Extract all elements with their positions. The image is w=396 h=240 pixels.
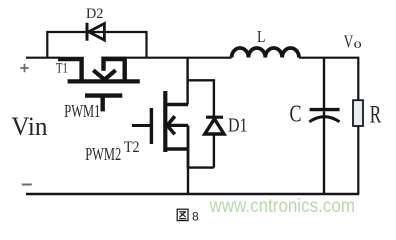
transistor T1 body lead and drain lead (top bar)	[104, 59, 125, 81]
wire R bottom	[357, 126, 359, 194]
transistor T1 source lead (left L)	[58, 59, 82, 81]
svg-text:8: 8	[192, 209, 199, 223]
wire inductor to output corner, down to R	[299, 58, 358, 101]
transistor T2 gate bar	[150, 108, 153, 144]
wire T2 source to ground rail	[187, 168, 189, 194]
svg-text:T2: T2	[124, 139, 140, 156]
transistor T2 drain stub	[164, 103, 189, 107]
svg-text:Vin: Vin	[11, 111, 47, 141]
diode D2 cathode bar	[86, 23, 89, 41]
svg-text:T1: T1	[56, 60, 68, 76]
wire switch node drop to T2 drain	[186, 58, 188, 105]
resistor R box	[353, 100, 363, 126]
transistor T1 body arrow	[93, 70, 115, 79]
wire main rail T1 to inductor	[102, 57, 232, 59]
transistor T1 gate lead	[100, 96, 104, 112]
svg-text:o: o	[354, 37, 362, 52]
svg-text:PWM1: PWM1	[64, 101, 100, 121]
svg-text:C: C	[290, 102, 302, 128]
capacitor C bottom curved plate	[309, 117, 339, 122]
wire branch to D1 top	[188, 80, 214, 116]
svg-text:PWM2: PWM2	[85, 144, 121, 164]
svg-text:www.cntronics.com: www.cntronics.com	[209, 196, 355, 217]
wire D1 bottom	[213, 134, 215, 168]
transistor T2 body stub	[167, 124, 188, 127]
wire C bottom	[323, 111, 325, 194]
transistor T2 body arrow	[167, 116, 175, 134]
capacitor C top plate	[310, 108, 340, 111]
transistor T2 source stub	[164, 147, 189, 151]
diode D1 triangle	[205, 119, 224, 134]
inductor L	[232, 48, 299, 58]
wire Vin+ to T1 source	[26, 57, 60, 59]
diode D1 cathode bar	[206, 116, 223, 119]
ground rail	[26, 193, 359, 195]
node plus terminal	[20, 64, 28, 72]
transistor T2 source/body vertical	[187, 125, 190, 167]
diode D2 triangle	[89, 24, 105, 41]
wire D1 anode tie	[187, 166, 214, 168]
wire C top drop	[323, 58, 325, 109]
node minus terminal	[22, 184, 32, 186]
svg-text:D2: D2	[86, 6, 103, 22]
transistor T1 channel bar	[68, 79, 140, 83]
caption figure glyph tu	[177, 209, 188, 220]
svg-text:R: R	[370, 101, 382, 128]
wire D2 branch (left drop, top run, right drop)	[47, 32, 146, 58]
svg-text:L: L	[257, 27, 266, 46]
transistor T1 gate bar	[85, 93, 122, 97]
svg-text:V: V	[344, 32, 354, 52]
transistor T2 channel bar	[163, 91, 167, 152]
transistor T2 gate lead	[132, 124, 150, 127]
svg-text:D1: D1	[228, 115, 248, 137]
